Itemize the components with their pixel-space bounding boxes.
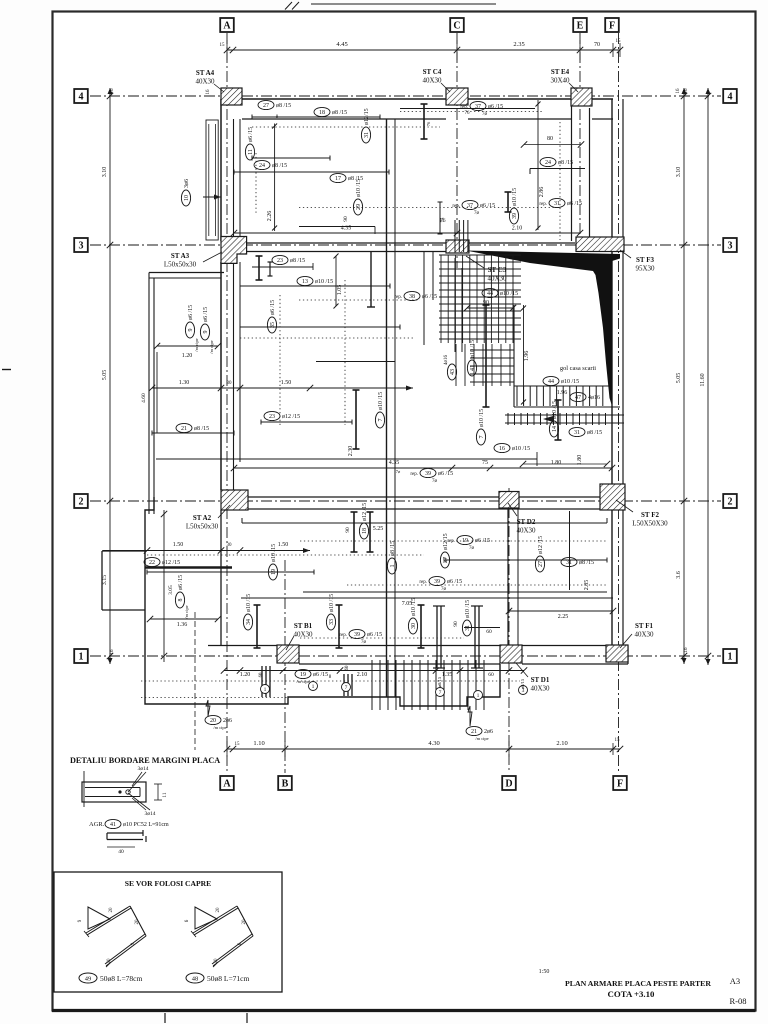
detail dim 11 [157,784,159,800]
svg-text:ø6 /15: ø6 /15 [488,104,503,110]
svg-text:60: 60 [486,629,492,635]
grid bubble 2 right [723,494,737,508]
svg-text:44: 44 [548,379,554,385]
svg-text:ø10 /15: ø10 /15 [512,446,530,452]
svg-text:40X30: 40X30 [195,78,215,86]
column ST D2 [499,492,519,509]
dim row 1.50/30/1.50 [103,550,310,552]
svg-text:44: 44 [487,291,493,297]
leader 3ø14 bottom [132,798,146,810]
bar circles bottom [261,685,270,694]
svg-text:60: 60 [488,672,494,678]
svg-text:1.96: 1.96 [557,390,568,396]
svg-text:/m cipe: /m cipe [209,340,214,353]
annotation 14b rotated [549,401,558,437]
svg-text:27: 27 [538,561,544,567]
vertical dim lower-left [163,510,165,662]
rebar line 24L [252,157,330,159]
svg-text:3ø14: 3ø14 [145,811,156,817]
svg-text:31: 31 [364,132,370,138]
svg-text:4: 4 [728,92,733,103]
svg-text:76: 76 [465,111,471,116]
svg-text:ST F1: ST F1 [635,622,653,630]
svg-text:/m cipe: /m cipe [213,725,226,730]
column ST E4 [571,88,592,106]
svg-text:rep.: rep. [339,633,347,638]
annotation 24 right [540,157,573,166]
svg-text:90: 90 [345,527,351,533]
fold mark left [2,369,11,371]
beam grid 3 [221,242,446,244]
svg-text:ø6 /15: ø6 /15 [438,471,453,477]
svg-text:ST E4: ST E4 [551,68,570,76]
svg-text:27: 27 [263,103,269,109]
svg-text:41: 41 [110,822,116,828]
svg-text:3ø6: 3ø6 [184,179,190,188]
annotation 18 [314,107,347,116]
svg-text:37: 37 [475,104,481,110]
bottom-left slab outline [145,497,500,706]
svg-text:19: 19 [300,672,306,678]
svg-text:7: 7 [439,690,442,696]
svg-text:7ø: 7ø [361,640,367,645]
svg-text:30: 30 [227,543,233,548]
svg-text:9: 9 [203,331,209,334]
svg-text:11.60: 11.60 [700,373,706,386]
svg-text:40X30: 40X30 [422,77,442,85]
svg-text:1.36: 1.36 [177,622,188,628]
svg-text:35: 35 [270,322,276,328]
wall strip left of A (dashed) [206,120,218,240]
svg-text:7: 7 [345,685,348,691]
svg-text:3ø14: 3ø14 [138,766,149,772]
svg-text:ø12 /15: ø12 /15 [362,503,368,521]
svg-text:90: 90 [453,621,459,627]
svg-text:1:50: 1:50 [539,969,550,975]
svg-text:/m cipe: /m cipe [194,338,199,351]
svg-text:1.05: 1.05 [337,285,343,296]
rebar line 21 [152,432,234,434]
svg-text:3.05: 3.05 [168,585,174,595]
svg-text:16: 16 [676,88,681,94]
svg-text:ST D1: ST D1 [531,676,550,684]
grid bubble B bottom [278,776,292,790]
svg-text:ø10 /15: ø10 /15 [465,600,471,618]
svg-text:rep.: rep. [539,202,547,207]
svg-text:ø10 /15: ø10 /15 [512,188,518,206]
svg-text:38: 38 [409,294,415,300]
annotation 27c rotated [535,536,544,572]
row 7.05 [241,597,613,599]
svg-text:30: 30 [411,623,417,629]
dotted row 37 [400,111,543,113]
svg-text:34: 34 [246,619,252,625]
svg-text:2.10: 2.10 [512,226,523,232]
rebar line 17 [234,171,389,173]
annotation 39 row3 [339,629,382,645]
annotation 20 [206,700,210,716]
svg-text:rep.: rep. [452,204,460,209]
beam grid 1 [208,645,628,647]
svg-text:ø6 /15: ø6 /15 [480,203,495,209]
svg-text:ø8 /15: ø8 /15 [579,560,594,566]
svg-text:60: 60 [259,672,264,677]
bottom bars group2 [343,674,345,696]
svg-text:76: 76 [426,121,431,126]
svg-text:40X30: 40X30 [516,527,536,535]
svg-text:ø8 /15: ø8 /15 [390,541,396,556]
rebar line 24R [530,168,585,170]
row dim 4.35/2.10 [234,232,580,234]
svg-text:7: 7 [479,436,485,439]
grid line C [456,33,458,268]
annotation 38 [394,291,437,300]
vertical line right room [569,511,571,590]
fold mark bottom 1 [164,1013,166,1023]
dim 90 stair [467,307,513,309]
thick bar line [145,566,232,569]
tall bars row [256,605,258,648]
svg-text:15: 15 [616,39,622,44]
vertical bar right mid [485,305,487,407]
svg-text:2.10: 2.10 [556,740,567,747]
svg-text:39: 39 [425,471,431,477]
annotation 31 rotated top [361,108,370,143]
svg-text:ø8 /15: ø8 /15 [194,426,209,432]
beam grid D vertical (bottom band) [507,509,509,646]
rotated 43 4ø16 [447,364,456,380]
svg-text:1: 1 [728,652,733,663]
svg-text:1.50: 1.50 [278,542,289,548]
svg-text:E: E [577,21,584,32]
svg-text:20: 20 [216,907,221,913]
bottom bars group1 [261,666,263,697]
bars pair mid [353,512,355,552]
svg-text:ST C4: ST C4 [423,68,442,76]
bottom comb [372,660,484,710]
rebar mat lower region [456,344,510,386]
svg-text:31: 31 [566,560,572,566]
svg-text:49: 49 [85,976,92,983]
svg-text:8: 8 [178,599,184,602]
right dimension chain 1 [683,88,685,664]
rebar bar with hooks [423,104,425,139]
svg-text:75: 75 [482,460,488,466]
grid bubble 2 left [74,494,88,508]
svg-text:17: 17 [335,176,341,182]
svg-text:23: 23 [277,258,283,264]
svg-text:1.50: 1.50 [281,380,292,386]
svg-text:20: 20 [135,919,140,925]
line mid room right part [316,361,395,363]
dim 80 top right [524,144,581,146]
svg-text:L50X50X30: L50X50X30 [632,520,668,528]
capra symbol 48 [193,906,238,935]
annotation 9b rotated [200,307,209,340]
svg-text:3.10: 3.10 [102,167,108,178]
dim bar 75 [439,202,441,234]
grid bubble D bottom [502,776,516,790]
dim 1.36 [150,618,218,620]
svg-text:7ø: 7ø [396,469,401,474]
svg-text:1: 1 [79,652,84,663]
svg-text:16: 16 [499,446,505,452]
svg-text:D: D [505,779,512,790]
left dimension chain [109,88,111,664]
svg-text:ø10 /15: ø10 /15 [329,594,335,612]
svg-text:F: F [609,21,615,32]
dotted row mid band [240,337,413,339]
crossing bars at C3 [423,252,425,345]
svg-text:/m cipe: /m cipe [184,605,189,618]
stair opening black wedge [466,251,620,407]
svg-text:A3: A3 [730,976,740,986]
svg-text:21: 21 [471,729,477,735]
rebar line 13 [240,326,400,328]
svg-text:30X40: 30X40 [550,77,570,85]
annotation 8 rotated [175,575,184,608]
svg-text:7: 7 [378,419,384,422]
grid line A [226,33,228,773]
column ST B1 [277,645,299,663]
annotation 19 row1 [447,535,490,551]
vertical bar right mid2 [557,400,559,440]
column ST D1 [500,645,522,663]
right dimension chain 2 (total) [707,88,709,665]
svg-text:2.10: 2.10 [357,672,368,678]
svg-text:15: 15 [615,738,621,743]
svg-text:10: 10 [184,195,190,201]
annotation 1 rot center [387,541,396,574]
left small bars g3 [269,262,271,276]
svg-text:ø12/15: ø12/15 [443,533,449,550]
svg-text:1: 1 [264,687,267,693]
grid bubble 3 right [723,238,737,252]
svg-text:4.30: 4.30 [428,740,439,747]
detail slab section [82,782,146,802]
svg-text:2ø6: 2ø6 [484,729,493,735]
grid bubble F top [605,18,619,32]
svg-text:4.35: 4.35 [389,460,400,466]
svg-text:4.35: 4.35 [341,226,352,232]
svg-text:37: 37 [467,203,473,209]
svg-text:2.30: 2.30 [348,446,354,457]
svg-text:ø6 /15: ø6 /15 [178,575,184,590]
svg-text:rep.: rep. [394,295,402,300]
grid bubble 4 left [74,89,88,103]
dim 1.20 row [157,345,218,347]
column ST F1 [606,645,628,662]
svg-text:20: 20 [242,919,247,925]
svg-text:1.50: 1.50 [173,542,184,548]
dotted guide top band [252,126,440,128]
svg-text:16: 16 [206,89,211,95]
beam grid F vertical right edge [611,99,613,645]
svg-text:2.35: 2.35 [513,41,524,48]
svg-text:40X30: 40X30 [293,631,313,639]
svg-text:ø8 /15: ø8 /15 [587,430,602,436]
svg-text:16: 16 [110,649,115,655]
annotation 9 rotated [185,305,194,338]
svg-text:31: 31 [465,625,471,631]
dotted h row g3 [299,299,420,301]
svg-text:2.25: 2.25 [558,614,569,620]
annotation 23b [264,411,300,420]
dotted row right room [299,207,559,209]
svg-text:70: 70 [594,42,600,48]
grid line B [284,560,286,773]
column ST F3 [576,237,624,252]
svg-text:1.96: 1.96 [524,351,530,362]
svg-text:ø10 /15: ø10 /15 [378,392,384,410]
grid bubble 1 left [74,649,88,663]
fold mark top [285,2,292,10]
svg-text:7ø: 7ø [432,479,438,484]
svg-text:16: 16 [110,88,115,94]
top dimension line [227,49,620,51]
svg-text:15: 15 [235,742,241,747]
rebar line 37 row [400,108,535,110]
svg-text:ø10 /15: ø10 /15 [561,379,579,385]
dashed vertical bottom-left [194,612,196,750]
svg-text:13: 13 [302,279,308,285]
svg-text:/m cipe: /m cipe [296,679,309,684]
svg-text:ø10 /15: ø10 /15 [271,544,277,562]
column ST A2 [221,490,248,510]
rotated 27b [440,533,449,568]
svg-text:50ø8 L=78cm: 50ø8 L=78cm [100,974,143,983]
long line mid bottom [156,458,537,460]
annotation 39 rep row [410,468,453,484]
dotted vertical mid band [344,280,346,425]
annotation 29 rotated [353,179,362,215]
svg-text:5.05: 5.05 [102,370,108,381]
svg-text:3: 3 [79,241,84,252]
svg-text:7ø: 7ø [482,112,488,117]
svg-text:ST B1: ST B1 [294,622,313,630]
grid bubble 4 right [723,89,737,103]
svg-text:7ø: 7ø [469,546,475,551]
leader 3ø14 top [132,772,142,786]
central beam vertical B' [386,119,388,697]
svg-text:4.60: 4.60 [141,393,147,403]
rebar line 23b [261,421,352,423]
vertical dim 2.86 [537,100,539,230]
svg-text:L50x50x30: L50x50x30 [186,523,219,531]
svg-text:1: 1 [477,693,480,699]
svg-text:DETALIU BORDARE MARGINI PLACA: DETALIU BORDARE MARGINI PLACA [70,756,220,765]
vertical dim left room [156,352,158,433]
grid line E [579,33,581,243]
svg-text:ST F2: ST F2 [641,511,659,519]
svg-text:16: 16 [684,647,689,653]
svg-text:ø12 /15: ø12 /15 [162,560,180,566]
annotation 11 rotated [245,127,254,160]
svg-text:2.86: 2.86 [539,187,545,198]
grid bubble 3 left [74,238,88,252]
svg-text:ø6 /15: ø6 /15 [447,579,462,585]
beam grid A vertical [220,99,222,241]
svg-text:1.80: 1.80 [551,460,562,466]
grid line 3 [90,244,721,246]
dim row 1.20/2.10/1.35/60 [224,670,524,672]
svg-text:76: 76 [441,219,447,224]
annotation 19 bottom [295,669,328,678]
bottom dimension line [227,748,620,750]
stair opening outline [514,305,620,407]
annotation 31 right [561,557,594,566]
grid bubble A bottom [220,776,234,790]
svg-text:27: 27 [443,557,449,563]
dim 60 bottom [464,627,500,629]
svg-text:20: 20 [109,907,114,913]
svg-text:gol casa scarii: gol casa scarii [560,365,596,372]
annotation 7b rotated [476,409,485,445]
rebar mat below stair [517,386,603,406]
column ST A4 [221,88,242,105]
svg-text:1.20: 1.20 [240,672,251,678]
annotation 24 left [254,160,287,169]
annotation 21 bottom [468,706,472,726]
svg-text:1.35: 1.35 [442,672,453,678]
svg-text:ø6 /15: ø6 /15 [248,127,254,142]
svg-text:ø10 /15: ø10 /15 [315,279,333,285]
svg-text:5.25: 5.25 [373,526,384,532]
svg-text:ø6 /15: ø6 /15 [567,201,582,207]
rebar line row y117 [252,116,380,118]
svg-text:ø10 /15: ø10 /15 [356,179,362,197]
annotation 18b rotated [359,503,368,539]
svg-text:20: 20 [214,958,219,964]
svg-text:31: 31 [574,430,580,436]
svg-text:41: 41 [470,365,476,371]
grid bubble E top [573,18,587,32]
dotted row bottom [141,680,520,682]
svg-text:39: 39 [512,213,518,219]
annotation 10 rotated [181,179,190,206]
svg-text:2.26: 2.26 [267,211,273,222]
svg-text:AGR.: AGR. [89,821,105,828]
beam grid 2 [242,496,600,498]
svg-text:90: 90 [343,216,349,222]
svg-text:SE VOR FOLOSI CAPRE: SE VOR FOLOSI CAPRE [125,879,211,888]
dim 1.30/1.50 row [152,387,413,389]
dotted row bottom room [147,554,424,556]
svg-text:11: 11 [162,792,168,798]
svg-text:39: 39 [354,632,360,638]
top thin line [311,3,496,5]
annotation 7 rotated [375,392,384,428]
svg-text:48: 48 [192,976,199,983]
svg-text:ø10 /15: ø10 /15 [500,291,518,297]
svg-text:7ø: 7ø [474,211,480,216]
svg-text:ø8 /15: ø8 /15 [290,258,305,264]
bottom border heavy line [52,1009,756,1012]
svg-text:rep.: rep. [419,580,427,585]
dotted vertical left room [255,153,257,215]
svg-text:3: 3 [728,241,733,252]
svg-text:1.30: 1.30 [179,380,190,386]
svg-text:ø10 /15: ø10 /15 [470,340,476,358]
svg-text:23: 23 [269,414,275,420]
annotation 35 rotated [267,300,276,333]
svg-text:ST A2: ST A2 [193,514,212,522]
svg-text:22: 22 [149,560,155,566]
beam grid E vertical [571,106,573,241]
svg-text:4ø16: 4ø16 [588,395,600,401]
rebar line right room [445,559,607,561]
annotation 27 [258,100,291,109]
